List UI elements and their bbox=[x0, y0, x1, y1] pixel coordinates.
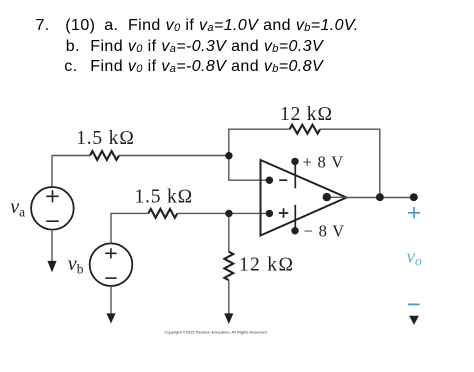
wire feedback left vertical and top bbox=[229, 129, 290, 156]
output reference arrow bbox=[409, 316, 419, 325]
op-amp positive supply lead bbox=[294, 161, 296, 188]
Vb minus sign bbox=[105, 277, 116, 279]
op-amp U1 triangle bbox=[261, 160, 347, 236]
resistor R1 1.5k zigzag bbox=[90, 151, 119, 160]
ground arrow under va bbox=[47, 261, 56, 273]
svg-text:− 8 V: − 8 V bbox=[304, 221, 345, 240]
dot positive supply terminal bbox=[291, 158, 298, 165]
resistor R3 12k vertical zigzag bbox=[224, 252, 233, 281]
label output plus bbox=[408, 207, 420, 218]
Va plus sign bbox=[46, 190, 58, 202]
svg-text:vo: vo bbox=[407, 247, 422, 269]
wire feedback right down to output bbox=[320, 129, 380, 197]
wire vb top to R2 bbox=[111, 213, 148, 243]
problem text line 3 bbox=[64, 58, 77, 76]
resistor R2 1.5k zigzag bbox=[148, 209, 177, 218]
label output minus bbox=[408, 303, 420, 305]
problem text line 1 bbox=[36, 17, 50, 35]
Vb plus sign bbox=[105, 248, 116, 258]
wire R1 to inverting node bbox=[119, 155, 229, 157]
dot output end terminal bbox=[410, 193, 418, 201]
wire noninverting node down to R3 bbox=[228, 213, 230, 251]
dot negative supply terminal bbox=[291, 227, 298, 234]
dot feedback junction bbox=[376, 193, 384, 201]
op-amp plus input sign bbox=[279, 208, 289, 218]
dot noninverting input terminal bbox=[266, 210, 273, 217]
ground arrow under vb bbox=[106, 313, 115, 323]
wire node down to inverting input bbox=[229, 156, 267, 181]
dot inverting node bbox=[225, 152, 232, 159]
wire R3 bottom bbox=[228, 280, 230, 314]
svg-text:Copyright ©2015 Pearson Educat: Copyright ©2015 Pearson Education, All R… bbox=[164, 329, 266, 334]
problem text line 2 bbox=[66, 38, 80, 56]
svg-text:1.5 kΩ: 1.5 kΩ bbox=[135, 187, 194, 208]
source Va circle bbox=[31, 187, 74, 230]
op-amp minus input sign bbox=[279, 179, 287, 181]
wire vb bottom bbox=[110, 286, 112, 314]
wire R2 to noninverting input bbox=[177, 212, 267, 214]
svg-text:va: va bbox=[10, 196, 25, 219]
svg-text:vb: vb bbox=[68, 253, 84, 276]
ground arrow under R3 bbox=[224, 313, 233, 324]
dot inverting input terminal bbox=[266, 177, 273, 184]
resistor R12 feedback zigzag bbox=[290, 125, 320, 134]
source Vb circle bbox=[90, 243, 133, 286]
svg-text:12 kΩ: 12 kΩ bbox=[280, 104, 333, 125]
output wire bbox=[347, 197, 418, 199]
dot noninverting node bbox=[225, 210, 232, 217]
svg-text:1.5 kΩ: 1.5 kΩ bbox=[76, 128, 135, 149]
op-amp output lead bbox=[327, 196, 347, 198]
svg-text:12 kΩ: 12 kΩ bbox=[239, 255, 295, 276]
dot output terminal bbox=[323, 193, 331, 201]
wire va top to R1 bbox=[52, 156, 90, 189]
op-amp negative supply lead bbox=[294, 205, 296, 231]
Va minus sign bbox=[46, 220, 58, 222]
svg-text:+ 8 V: + 8 V bbox=[303, 152, 344, 171]
wire va bottom bbox=[51, 230, 53, 262]
